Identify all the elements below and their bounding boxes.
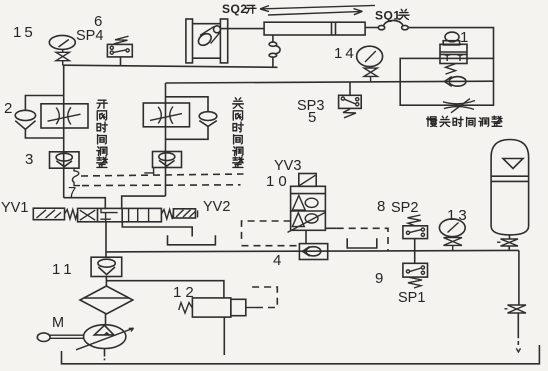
svg-text:10: 10 [266, 173, 291, 190]
check valve 2 [15, 110, 35, 129]
label 慢关时间调整 [427, 116, 502, 127]
tank bracket 2 [347, 238, 377, 248]
svg-text:YV1: YV1 [1, 200, 28, 216]
accumulator [491, 140, 528, 235]
spring left of valve 7 [65, 210, 78, 220]
wire branch to relief valve 12 [106, 281, 223, 298]
solenoid YV2 [173, 209, 197, 218]
tank bottom frame line [62, 345, 540, 364]
slow-close adjust box [400, 58, 493, 105]
pump (variable displacement) [76, 325, 134, 350]
arrow SQ1 (points right) [268, 9, 363, 15]
drain S-hook from valve 3 [72, 168, 80, 185]
svg-text:9: 9 [375, 270, 383, 287]
svg-text:13: 13 [447, 207, 470, 224]
SQ1 jump loop right of cylinder [378, 20, 408, 29]
shutoff valve under gauge 14 [364, 67, 377, 82]
wire right drop line [518, 250, 520, 304]
throttle box left (opening time) [41, 104, 88, 128]
directional valve 7 body [78, 208, 162, 221]
spring right of valve 7 [161, 210, 173, 220]
svg-text:2: 2 [4, 100, 12, 117]
wire top sensing line A [63, 65, 278, 67]
wire piston rod to butterfly crank [221, 28, 265, 30]
pressure switch SP2 [403, 215, 428, 239]
svg-text:3: 3 [25, 151, 33, 168]
pressure switch SP1 [403, 263, 428, 288]
svg-text:SQ2: SQ2 [222, 2, 248, 16]
pilot dashed line D2 [82, 184, 241, 187]
svg-text:SP4: SP4 [76, 28, 103, 44]
svg-text:M: M [52, 315, 64, 331]
butterfly valve disc crank [196, 26, 220, 48]
wire valve 7 P-port down [105, 222, 107, 257]
pressure switch SP3 [339, 82, 362, 118]
check valve 3b [153, 152, 182, 168]
butterfly valve flange right [220, 19, 227, 63]
shutoff valve under gauge 13 [444, 238, 463, 252]
butterfly valve body lines [193, 24, 221, 59]
svg-text:14: 14 [334, 45, 357, 62]
svg-text:YV3: YV3 [274, 158, 301, 174]
relief valve 12 [179, 298, 246, 317]
svg-text:11: 11 [52, 261, 76, 278]
svg-text:8: 8 [377, 198, 385, 215]
wire left branch to valve port A [64, 198, 106, 210]
throttle slow-close [443, 99, 475, 113]
check valve 4 [299, 244, 327, 260]
wire main sensing line B [166, 81, 494, 83]
solenoid YV1 [33, 208, 64, 220]
check valve 11 [91, 257, 122, 276]
label 关阀时间调整 (vertical) [233, 98, 244, 168]
wire YV3 right port [325, 227, 336, 229]
arrow SQ2 (points left) [260, 5, 375, 11]
wire right branch to valve port B [122, 196, 166, 209]
wire accumulator stem [509, 235, 511, 239]
pressure gauge 14 [357, 46, 383, 66]
notch from check valve 3b [144, 168, 153, 175]
label 开阀时间调整 (vertical) [97, 100, 108, 167]
shutoff valve under gauge 15 [56, 49, 69, 65]
pilot dash YV3 to main line [337, 228, 388, 251]
wire SP4 stub [120, 57, 122, 66]
svg-text:SP1: SP1 [398, 290, 425, 306]
check valve 2 bypass wires [25, 96, 63, 139]
roller operated valve 1 [440, 32, 467, 74]
pressure gauge 13 [439, 219, 465, 237]
check valve 2b [199, 112, 217, 127]
check valve 3 [50, 152, 80, 168]
svg-text:1: 1 [460, 29, 468, 46]
shutoff valve accumulator [497, 239, 518, 251]
label SQ2开 [222, 2, 256, 16]
wire main pressure line [106, 250, 519, 252]
throttle box right (closing time) [143, 103, 189, 127]
wire check 11 to filter [105, 277, 107, 287]
pressure switch SP4 [107, 36, 132, 57]
svg-text:4: 4 [273, 252, 281, 269]
pilot dashes of valve 12 [246, 307, 256, 309]
butterfly valve flange left [186, 19, 193, 63]
svg-text:15: 15 [13, 24, 36, 41]
filter [80, 286, 133, 314]
pilot dash YV3 left loop [242, 221, 300, 246]
wire relief valve drain [223, 317, 225, 355]
hydraulic cylinder [264, 22, 365, 35]
solenoid valve 10 YV3 [288, 174, 326, 233]
svg-text:7: 7 [68, 184, 76, 201]
wire rod right stub [365, 27, 378, 29]
wire right branch vertical [165, 83, 167, 196]
SQ2 jump loop below cylinder [269, 35, 280, 67]
svg-text:SP2: SP2 [391, 200, 418, 216]
check valve 1 (in box) [444, 77, 466, 87]
svg-text:5: 5 [308, 109, 316, 126]
wire YV3 bottom port [305, 230, 307, 243]
tank bracket 1 [168, 235, 216, 245]
shutoff valve drain right [505, 305, 527, 313]
check valve 2b bypass wires [166, 97, 209, 140]
wire drain to atmosphere with arrow [516, 313, 520, 352]
pressure gauge 15 [49, 35, 75, 49]
wire filter to pump [105, 314, 107, 325]
pilot dashed line D1 [81, 174, 244, 176]
wire SP2 to SP1 [414, 239, 416, 264]
label SQ1关 [375, 9, 409, 23]
hand lever with knob [37, 333, 83, 342]
wire SQ1 to slow-close circuit [408, 28, 493, 59]
svg-text:YV2: YV2 [203, 199, 230, 215]
wire pump drain to tank [104, 349, 106, 361]
wire left branch vertical [63, 65, 65, 197]
drain wire from valve 7 [122, 222, 192, 237]
